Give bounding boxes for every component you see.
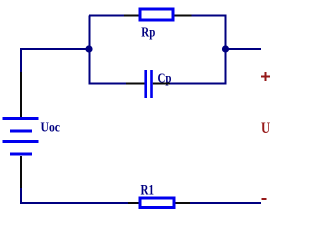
wire: battery top pin (black) bbox=[20, 72, 22, 117]
svg-text:R1: R1 bbox=[141, 183, 155, 199]
wire: bottom-left corner vertical (navy) bbox=[20, 188, 22, 204]
wire: left vertical of parallel branch bbox=[89, 16, 91, 85]
wire: output stub to right terminal bbox=[226, 48, 262, 50]
capacitor Cp right plate bbox=[150, 70, 153, 98]
wire: Rp branch navy lead right bbox=[192, 15, 227, 17]
wire: Rp right pin (black) bbox=[175, 15, 192, 17]
wire: Cp branch navy lead right bbox=[170, 83, 226, 85]
resistor R1 body bbox=[140, 198, 174, 208]
wire: top-left horizontal from battery top corner to left node bbox=[20, 48, 90, 50]
capacitor Cp left plate bbox=[144, 70, 147, 98]
wire: Rp left pin (black) bbox=[124, 15, 139, 17]
wire: Rp branch navy lead left bbox=[89, 15, 124, 17]
svg-text:Rp: Rp bbox=[141, 25, 155, 40]
wire: R1 left pin (black) bbox=[128, 202, 139, 204]
battery U_oc plate 2 (short) bbox=[10, 130, 32, 133]
wire: Cp left pin (black) bbox=[126, 83, 145, 85]
resistor Rp body bbox=[140, 9, 173, 20]
battery U_oc plate 3 (long) bbox=[3, 140, 39, 143]
wire: bottom horizontal to right terminal bbox=[190, 202, 261, 204]
terminal label minus (red) bbox=[262, 198, 267, 200]
wire: left corner vertical (navy) down toward battery bbox=[20, 48, 22, 72]
wire: R1 right pin (black) bbox=[176, 202, 191, 204]
battery U_oc plate 1 (long) bbox=[3, 117, 39, 120]
wire: battery bottom pin (black) bbox=[20, 156, 22, 188]
svg-text:U: U bbox=[261, 120, 271, 137]
wire: Cp right pin (black) bbox=[153, 83, 170, 85]
wire: bottom horizontal to R1 bbox=[20, 202, 128, 204]
svg-text:Uoc: Uoc bbox=[41, 121, 61, 136]
node B: right junction dot bbox=[222, 45, 229, 52]
battery U_oc plate 4 (short) bbox=[10, 153, 32, 156]
terminal label plus (red) bbox=[261, 72, 270, 81]
node A: left junction dot bbox=[85, 45, 92, 52]
wire: right vertical of parallel branch bbox=[225, 15, 227, 85]
wire: Cp branch navy lead left bbox=[89, 83, 126, 85]
